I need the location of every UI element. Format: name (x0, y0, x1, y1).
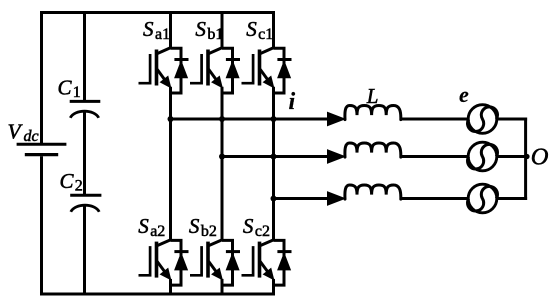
transistor Sb1 body bar (206, 50, 210, 86)
wire: phase b output line (222, 155, 329, 158)
diode of Sa2 anode triangle (175, 253, 188, 270)
diode of Sc1 anode triangle (278, 61, 291, 78)
transistor Sc1 emitter slant (260, 69, 269, 81)
diode of Sb1 anode triangle (226, 61, 239, 78)
transistor Sa1 collector slant (157, 48, 171, 54)
wire: capacitor branch from top rail to C1 (83, 13, 86, 101)
diode of Sa1 cathode bar (174, 58, 188, 61)
wire: neutral bus vertical (right) (524, 118, 527, 201)
wire: source to neutral bus phase c (496, 197, 527, 200)
svg-text:1: 1 (73, 84, 81, 101)
svg-text:O: O (531, 143, 549, 170)
transistor Sc1 emitter arrowhead (264, 76, 274, 87)
transistor Sc1 collector slant (260, 48, 274, 54)
svg-text:S: S (189, 214, 200, 238)
transistor Sa1 body bar (155, 50, 159, 86)
diode of Sb2 anode triangle (226, 253, 239, 270)
diode of Sa1: top connector, cathode line, bottom connector (171, 48, 182, 93)
wire: capacitor branch between C1 and C2 (83, 112, 86, 194)
transistor Sb2 collector slant (208, 240, 222, 246)
node: phase b tap on leg b (219, 154, 225, 160)
diode of Sc2 anode triangle (278, 253, 291, 270)
svg-text:S: S (246, 17, 257, 41)
IGBT S_b1 (upper switch leg b) (190, 48, 240, 94)
wire: top DC rail (40, 11, 275, 14)
capacitor C2 curved plate (71, 205, 99, 212)
node: phase c tap on leg c (271, 196, 277, 202)
node: phase a tap on leg a (168, 116, 174, 122)
transistor Sb2 emitter arrowhead (212, 269, 222, 280)
wire: leg a collector from top rail (169, 13, 172, 49)
diode of Sc1: top connector, cathode line, bottom connector (274, 48, 285, 93)
svg-text:c1: c1 (258, 26, 273, 43)
inductor L phase c (345, 185, 401, 199)
diode of Sb1: top connector, cathode line, bottom connector (222, 48, 233, 93)
IGBT S_b2 (lower switch leg b) (190, 240, 240, 286)
diode of Sa2 cathode bar (174, 250, 188, 253)
wire: leg b emitter of S_b2 to bottom rail (221, 279, 224, 294)
svg-text:e: e (459, 82, 469, 107)
AC source e phase a (468, 105, 498, 134)
capacitor C2 top plate (70, 194, 101, 197)
transistor Sa2 collector slant (157, 240, 171, 246)
transistor Sc1 gate bar and lead (242, 54, 254, 83)
transistor Sa1 emitter arrowhead (161, 76, 171, 87)
battery V_dc positive plate (long) (17, 143, 67, 146)
capacitor C1 curved plate (70, 111, 98, 118)
wire: inductor to source phase a (401, 118, 469, 121)
transistor Sa2 emitter slant (157, 261, 166, 273)
capacitor C1 top plate (70, 100, 101, 103)
diode of Sb1 cathode bar (226, 58, 240, 61)
inductor L phase a (345, 106, 401, 120)
wire: phase a output line (171, 118, 329, 121)
wire: source to neutral bus phase b (496, 155, 527, 158)
transistor Sc2 emitter slant (260, 261, 269, 273)
svg-text:b2: b2 (201, 223, 217, 240)
diode of Sa1 anode triangle (175, 61, 188, 78)
current arrow phase c (328, 192, 345, 205)
transistor Sb2 gate bar and lead (190, 246, 202, 275)
transistor Sa2 emitter arrowhead (161, 269, 171, 280)
inductor L phase b (345, 143, 401, 157)
AC source e phase c (468, 184, 498, 213)
diode of Sc2 cathode bar (277, 250, 291, 253)
svg-text:i: i (289, 89, 296, 115)
IGBT S_c1 (upper switch leg c) (242, 48, 292, 94)
wire: leg a emitter of S_a2 to bottom rail (169, 279, 172, 294)
transistor Sc2 collector slant (260, 240, 274, 246)
diode of Sb2: top connector, cathode line, bottom connector (222, 240, 233, 285)
diode of Sc2: top connector, cathode line, bottom connector (274, 240, 285, 285)
IGBT S_c2 (lower switch leg c) (242, 240, 292, 286)
current arrow phase b (328, 150, 345, 163)
wire: left DC bus vertical (top half, above battery) (40, 11, 43, 143)
node: crossing leg c / phase b line (271, 154, 277, 160)
transistor Sc1 body bar (258, 50, 262, 86)
wire: capacitor branch from C2 to bottom rail (83, 206, 86, 294)
battery V_dc negative plate (short) (25, 153, 58, 156)
diode of Sc1 cathode bar (277, 58, 291, 61)
transistor Sa1 emitter slant (157, 69, 166, 81)
diode of Sa2: top connector, cathode line, bottom connector (171, 240, 182, 285)
current arrow phase a (328, 112, 345, 125)
AC source e phase b (468, 142, 498, 171)
wire: leg b midpoint vertical (221, 87, 224, 241)
node O junction dot (524, 154, 529, 159)
transistor Sa1 gate bar and lead (139, 54, 151, 83)
svg-text:S: S (195, 17, 206, 41)
wire: inductor to source phase c (401, 197, 469, 200)
transistor Sc2 emitter arrowhead (264, 269, 274, 280)
svg-text:dc: dc (24, 128, 39, 145)
svg-text:S: S (243, 214, 254, 238)
IGBT S_a2 (lower switch leg a) (139, 240, 189, 286)
svg-text:b1: b1 (207, 26, 223, 43)
transistor Sb2 body bar (206, 242, 210, 278)
wire: left DC bus vertical (bottom half, below battery) (40, 156, 43, 295)
node: crossing leg b / phase a line (219, 116, 225, 122)
transistor Sb1 emitter slant (209, 69, 218, 81)
transistor Sc2 gate bar and lead (242, 246, 254, 275)
node: crossing leg c / phase a line (271, 116, 277, 122)
transistor Sa2 gate bar and lead (139, 246, 151, 275)
wire: source to neutral bus phase a (496, 118, 527, 121)
svg-text:S: S (143, 17, 154, 41)
wire: inductor to source phase b (401, 155, 469, 158)
svg-text:C: C (60, 169, 75, 193)
wire: leg c collector from top rail (272, 13, 275, 49)
svg-text:S: S (138, 214, 149, 238)
svg-text:c2: c2 (255, 223, 270, 240)
transistor Sb2 emitter slant (209, 261, 218, 273)
wire: phase c output line (274, 197, 329, 200)
IGBT S_a1 (upper switch leg a) (139, 48, 189, 94)
diode of Sb2 cathode bar (226, 250, 240, 253)
wire: bottom DC rail (40, 293, 275, 296)
wire: leg c emitter of S_c2 to bottom rail (272, 279, 275, 294)
wire: leg a midpoint vertical (169, 87, 172, 241)
transistor Sa2 body bar (155, 242, 159, 278)
transistor Sc2 body bar (258, 242, 262, 278)
svg-text:a2: a2 (150, 223, 165, 240)
svg-text:a1: a1 (155, 26, 170, 43)
wire: leg b collector from top rail (221, 13, 224, 49)
wire: leg c midpoint vertical (272, 87, 275, 241)
svg-text:2: 2 (75, 178, 83, 195)
transistor Sb1 gate bar and lead (190, 54, 202, 83)
svg-text:L: L (366, 84, 379, 108)
transistor Sb1 collector slant (208, 48, 222, 54)
transistor Sb1 emitter arrowhead (212, 76, 222, 87)
svg-text:C: C (58, 75, 73, 99)
